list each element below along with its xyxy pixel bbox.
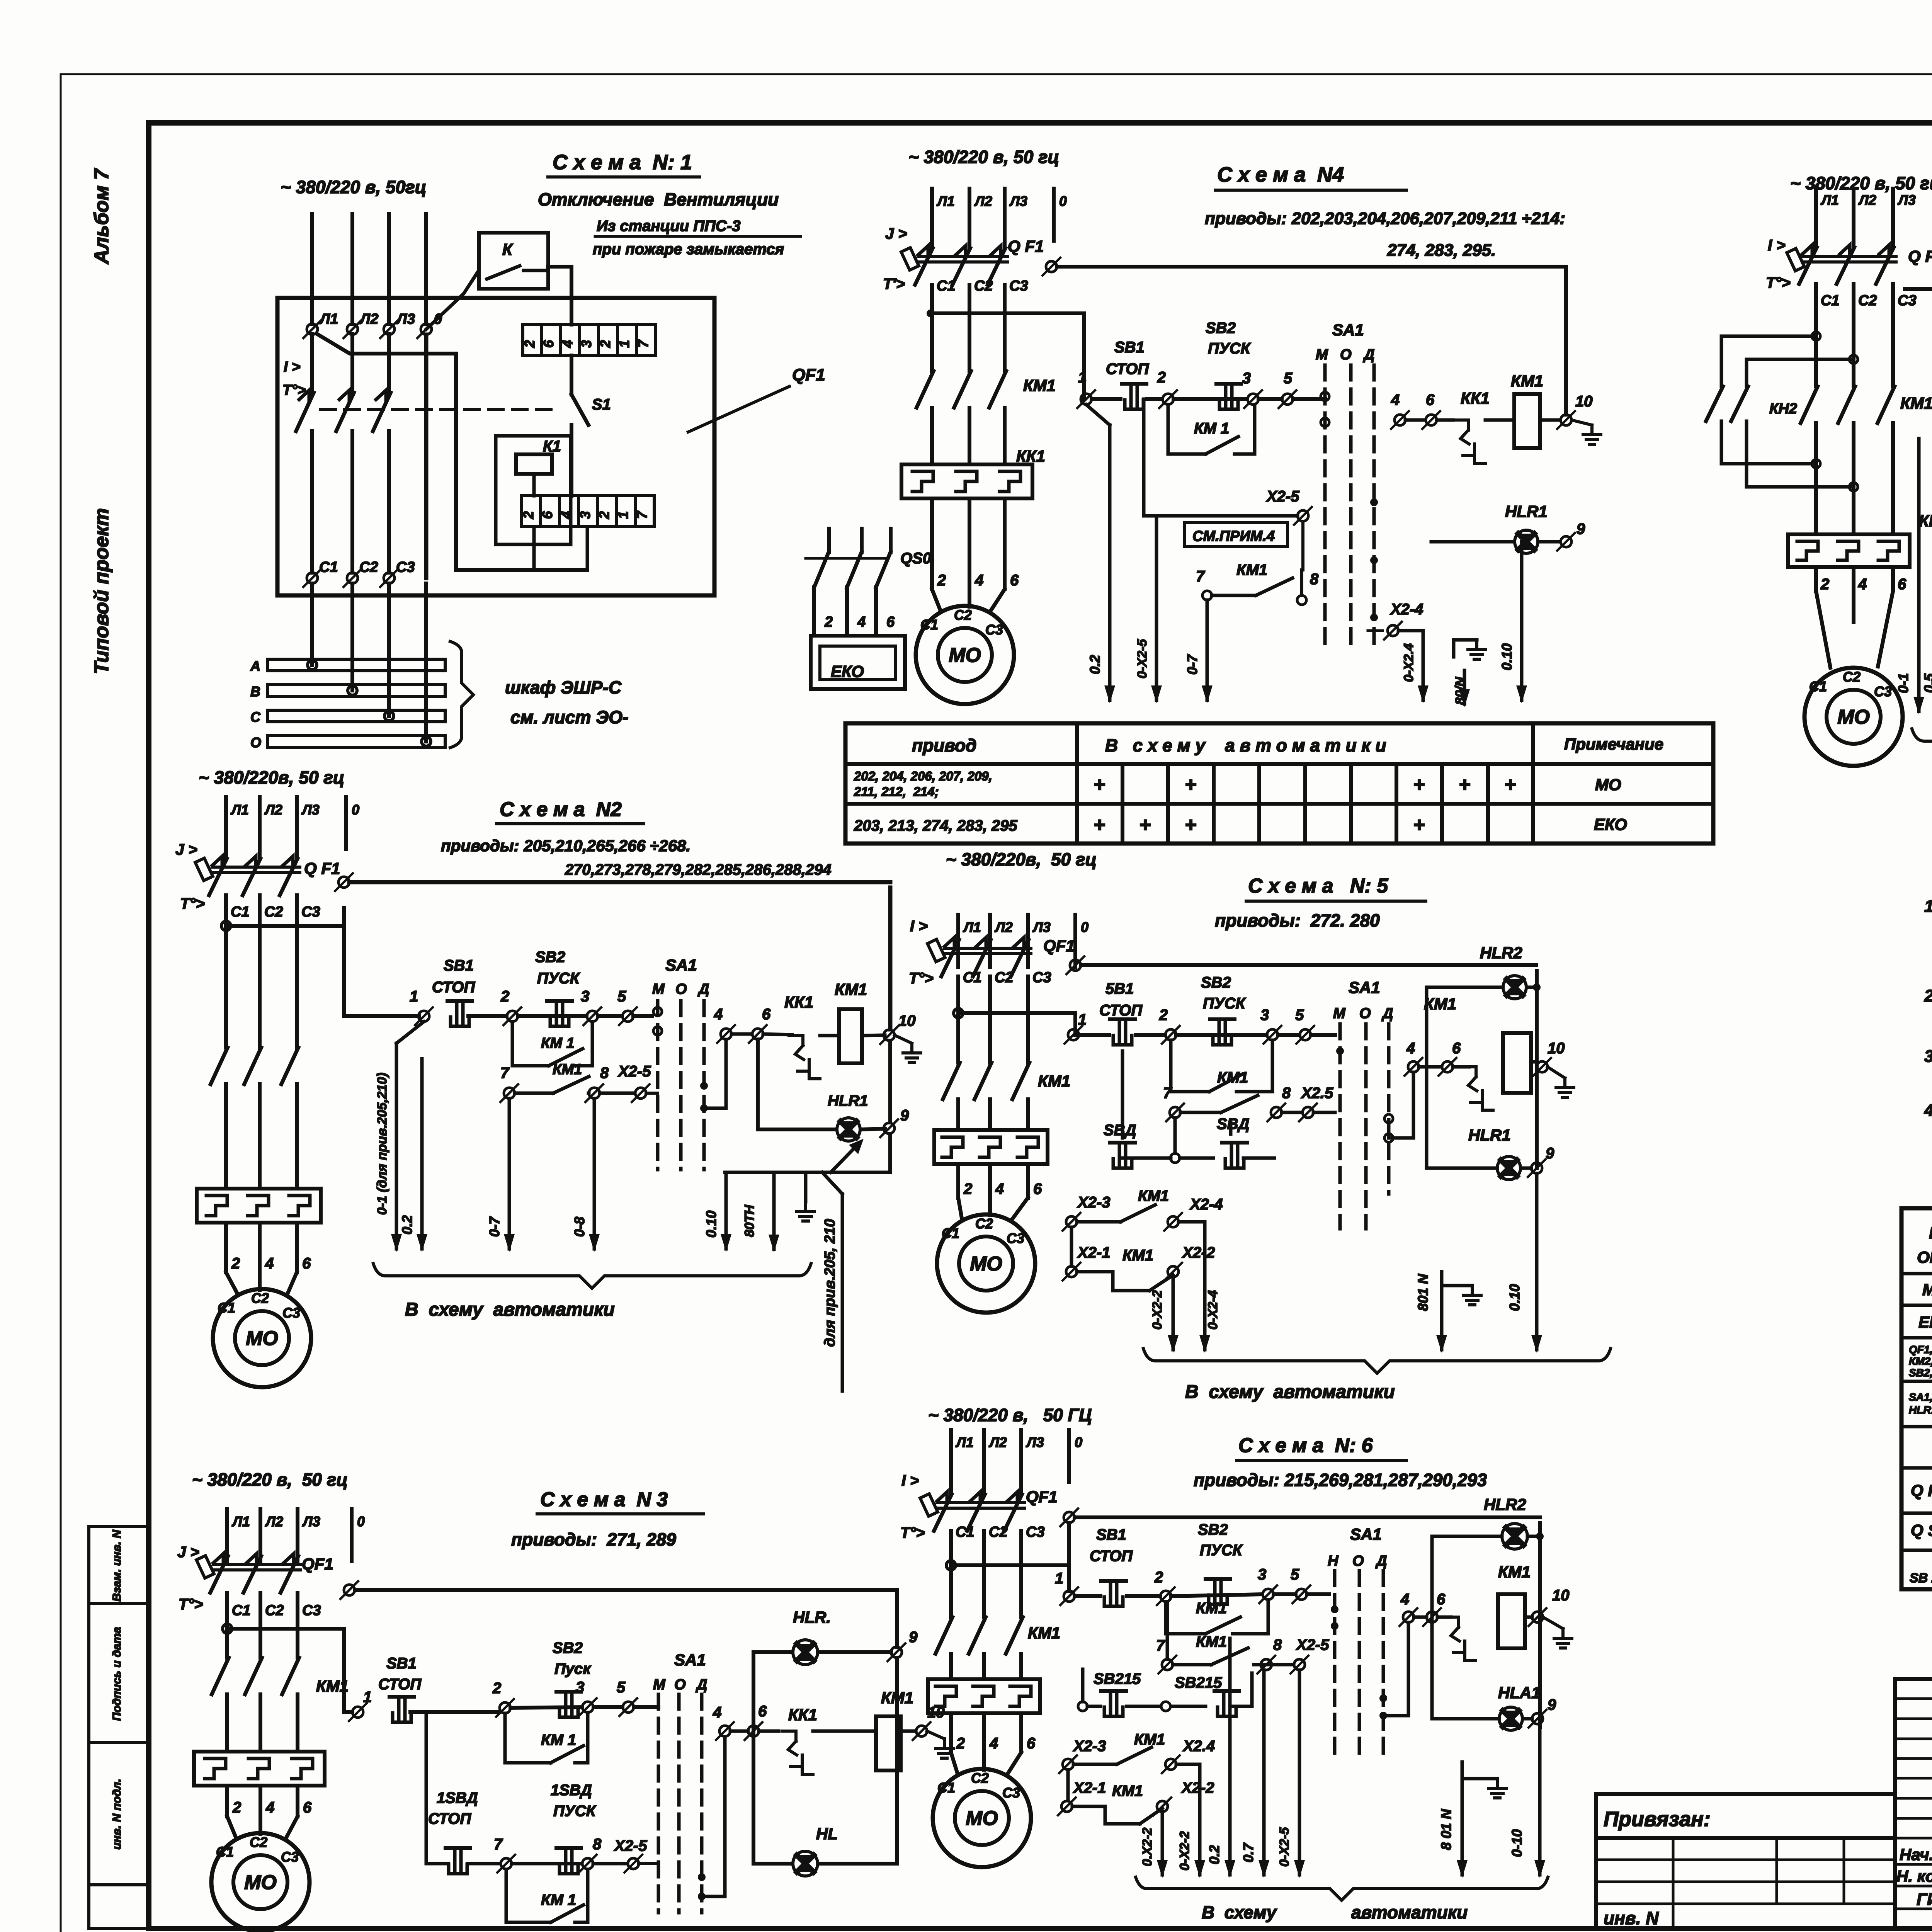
svg-text:Альбом 7: Альбом 7 (90, 168, 113, 265)
svg-text:Х2.4: Х2.4 (1182, 1738, 1215, 1755)
svg-text:МО: МО (949, 644, 981, 667)
svg-text:SВ 215: SВ 215 (1910, 1571, 1932, 1585)
svg-text:С1: С1 (937, 1780, 955, 1796)
svg-text:ЕКО: ЕКО (1918, 1313, 1932, 1331)
svg-text:Х2-3: Х2-3 (1077, 1194, 1111, 1211)
svg-text:ПУСК: ПУСК (537, 970, 580, 987)
svg-text:Х2-5: Х2-5 (1266, 488, 1299, 505)
svg-text:1: 1 (410, 988, 418, 1005)
svg-text:С2: С2 (251, 1290, 269, 1306)
svg-text:НLR1: НLR1 (1468, 1126, 1511, 1144)
svg-text:О: О (250, 735, 261, 750)
svg-text:М: М (1316, 347, 1328, 363)
svg-text:1SВД: 1SВД (551, 1782, 592, 1799)
svg-text:0-7: 0-7 (1184, 654, 1200, 675)
svg-text:0.10: 0.10 (1499, 643, 1515, 670)
svg-text:Q F1: Q F1 (1008, 237, 1044, 256)
svg-text:С3: С3 (301, 904, 320, 920)
svg-text:7: 7 (635, 339, 651, 348)
svg-text:1: 1 (616, 340, 632, 348)
svg-text:2: 2 (596, 511, 612, 519)
svg-text:Q F1: Q F1 (304, 859, 340, 878)
svg-text:МО: МО (1922, 1281, 1932, 1299)
svg-text:Л1: Л1 (963, 919, 981, 935)
svg-text:I >: I > (901, 1472, 919, 1489)
svg-text:9: 9 (909, 1629, 918, 1646)
svg-text:М: М (653, 1677, 666, 1693)
svg-text:ПУСК: ПУСК (1203, 995, 1246, 1012)
svg-text:0-8: 0-8 (571, 1217, 587, 1237)
svg-text:4: 4 (1406, 1040, 1415, 1057)
svg-text:С3: С3 (1009, 278, 1028, 294)
svg-text:S1: S1 (592, 396, 611, 413)
svg-text:1: 1 (1078, 369, 1087, 386)
svg-text:+: + (1185, 774, 1196, 796)
svg-text:Л3: Л3 (396, 311, 415, 327)
svg-text:3: 3 (578, 340, 594, 348)
svg-text:см. лист ЭО-: см. лист ЭО- (510, 707, 628, 727)
svg-text:КМ1: КМ1 (835, 980, 867, 998)
svg-text:Л3: Л3 (1009, 193, 1027, 209)
svg-text:С3: С3 (302, 1602, 321, 1619)
svg-text:6: 6 (886, 614, 895, 630)
svg-text:КН2: КН2 (1769, 401, 1797, 417)
svg-text:5: 5 (1284, 370, 1293, 387)
svg-text:КМ1: КМ1 (1196, 1633, 1227, 1650)
svg-text:80ТН: 80ТН (742, 1204, 757, 1237)
svg-text:М: М (1333, 1005, 1346, 1022)
svg-text:ПУСК: ПУСК (1200, 1542, 1243, 1559)
svg-text:~ 380/220в, 50 гц: ~ 380/220в, 50 гц (199, 767, 344, 787)
svg-text:М: М (652, 981, 665, 997)
svg-text:КМ 1: КМ 1 (541, 1891, 576, 1908)
svg-text:МО: МО (970, 1253, 1002, 1275)
svg-text:SА1: SА1 (665, 956, 697, 974)
svg-text:С1: С1 (963, 969, 982, 986)
svg-text:КМ1: КМ1 (553, 1061, 582, 1078)
svg-text:SА1: SА1 (1350, 1525, 1382, 1543)
svg-text:приводы: 215,269,281,287,290,2: приводы: 215,269,281,287,290,293 (1194, 1470, 1487, 1490)
svg-text:QS0: QS0 (900, 550, 931, 567)
svg-text:Т°>: Т°> (179, 1596, 203, 1613)
svg-text:КК1: КК1 (1461, 389, 1490, 407)
svg-text:КМ1: КМ1 (1134, 1731, 1165, 1748)
svg-text:С2: С2 (995, 969, 1014, 986)
svg-text:1: 1 (615, 511, 631, 519)
svg-text:4.: 4. (1924, 1101, 1932, 1120)
svg-text:приводы: 202,203,204,206,207,2: приводы: 202,203,204,206,207,209,211 ÷21… (1205, 209, 1565, 228)
svg-text:Подпись и дата: Подпись и дата (111, 1627, 123, 1721)
svg-text:4: 4 (265, 1799, 274, 1816)
svg-text:ГИП: ГИП (1917, 1890, 1932, 1909)
svg-text:0.2: 0.2 (1206, 1845, 1222, 1864)
svg-text:Х2-4: Х2-4 (1390, 601, 1423, 618)
svg-text:В с х е м у а в т о м а т: В с х е м у а в т о м а т и к и (1105, 735, 1386, 755)
svg-text:Q S0: Q S0 (1911, 1521, 1932, 1540)
svg-text:ЕКО: ЕКО (1594, 815, 1627, 833)
svg-text:С3: С3 (1007, 1230, 1024, 1246)
svg-text:при пожаре замыкается: при пожаре замыкается (593, 241, 784, 258)
svg-text:6: 6 (1437, 1591, 1446, 1608)
svg-text:Д: Д (1375, 1553, 1387, 1569)
svg-text:Л1: Л1 (1820, 192, 1839, 208)
svg-text:С1: С1 (1809, 679, 1827, 694)
svg-text:SВД: SВД (1217, 1116, 1249, 1133)
svg-text:С3: С3 (396, 559, 415, 575)
svg-text:J >: J > (177, 1544, 199, 1561)
svg-text:7: 7 (494, 1836, 503, 1853)
svg-text:приводы: 272. 280: приводы: 272. 280 (1215, 910, 1380, 930)
svg-text:Х2-2: Х2-2 (1181, 1779, 1214, 1796)
svg-text:SВ2: SВ2 (1206, 320, 1236, 337)
svg-text:9: 9 (1548, 1696, 1556, 1713)
svg-text:SВ215: SВ215 (1094, 1670, 1141, 1687)
svg-text:0: 0 (357, 1514, 365, 1529)
svg-text:привод: привод (912, 735, 976, 755)
svg-text:Л2: Л2 (1858, 192, 1876, 208)
svg-text:Примечание: Примечание (1564, 735, 1663, 753)
svg-text:С: С (250, 709, 261, 725)
svg-text:3: 3 (577, 511, 593, 519)
svg-text:С х е м а N: 5: С х е м а N: 5 (1248, 875, 1388, 897)
svg-text:ПОЗ.: ПОЗ. (1929, 1224, 1932, 1242)
svg-text:Л3: Л3 (1897, 192, 1916, 208)
svg-text:I >: I > (284, 359, 300, 375)
svg-text:Л2: Л2 (974, 193, 992, 209)
svg-text:ЕКО: ЕКО (831, 662, 864, 680)
svg-text:Q F1: Q F1 (1908, 247, 1932, 266)
svg-text:СТОП: СТОП (432, 979, 475, 996)
svg-text:3: 3 (581, 988, 589, 1005)
svg-text:Х2-5: Х2-5 (617, 1063, 651, 1080)
svg-text:2: 2 (522, 340, 537, 348)
svg-text:С1: С1 (319, 559, 338, 575)
svg-text:В схему автоматики: В схему автоматики (1185, 1382, 1395, 1402)
svg-text:SВ215: SВ215 (1175, 1674, 1222, 1691)
svg-text:SВ2: SВ2 (553, 1639, 583, 1656)
svg-text:КМ1: КМ1 (1122, 1247, 1153, 1264)
svg-text:4: 4 (560, 340, 575, 348)
svg-text:~ 380/220 в, 50 ГЦ: ~ 380/220 в, 50 ГЦ (928, 1405, 1092, 1425)
svg-text:4: 4 (995, 1180, 1004, 1197)
svg-text:0-Х2-4: 0-Х2-4 (1206, 1290, 1220, 1330)
svg-text:СТОП: СТОП (428, 1810, 471, 1827)
svg-text:SВД: SВД (1104, 1122, 1136, 1139)
svg-text:МО: МО (246, 1327, 278, 1350)
svg-text:6: 6 (1010, 572, 1019, 589)
svg-text:С х е м а N 3: С х е м а N 3 (540, 1488, 668, 1511)
svg-text:+: + (1504, 774, 1516, 796)
svg-text:КК1: КК1 (1919, 512, 1932, 530)
svg-text:I >: I > (1768, 237, 1786, 254)
svg-text:SВ1: SВ1 (444, 957, 474, 974)
svg-text:Л2: Л2 (994, 919, 1013, 935)
svg-text:QF1, КМ1,: QF1, КМ1, (1909, 1344, 1932, 1355)
svg-text:2: 2 (597, 340, 613, 348)
svg-text:0.10: 0.10 (703, 1211, 719, 1238)
svg-text:Л1: Л1 (319, 311, 338, 327)
svg-text:Q F1: Q F1 (1911, 1481, 1932, 1500)
svg-text:4: 4 (989, 1735, 998, 1752)
svg-text:3: 3 (576, 1679, 584, 1696)
svg-text:+: + (1139, 814, 1151, 836)
svg-text:Т'>: Т'> (883, 276, 905, 293)
svg-text:4: 4 (857, 614, 866, 630)
svg-text:С3: С3 (1026, 1524, 1045, 1540)
svg-text:Х2-4: Х2-4 (1189, 1196, 1223, 1213)
svg-text:0.2: 0.2 (399, 1215, 415, 1235)
svg-text:Л2: Л2 (988, 1434, 1007, 1450)
svg-text:0-1: 0-1 (1895, 673, 1911, 693)
svg-text:Х2-5: Х2-5 (1296, 1636, 1329, 1653)
svg-text:5: 5 (617, 988, 626, 1005)
svg-text:1: 1 (1078, 1011, 1087, 1028)
svg-text:SВ1: SВ1 (1114, 339, 1145, 356)
svg-text:С2: С2 (250, 1834, 267, 1850)
svg-text:Х2-1: Х2-1 (1073, 1779, 1106, 1796)
svg-text:Н: Н (1328, 1553, 1339, 1569)
svg-text:С1: С1 (956, 1524, 975, 1540)
svg-text:J >: J > (885, 225, 907, 242)
svg-text:211, 212, 214;: 211, 212, 214; (854, 784, 939, 799)
svg-text:0: 0 (352, 802, 359, 818)
svg-text:КМ1: КМ1 (1236, 561, 1267, 578)
svg-text:С3: С3 (281, 1849, 299, 1865)
svg-text:5: 5 (1291, 1566, 1299, 1583)
svg-text:КМ1: КМ1 (1196, 1600, 1227, 1617)
svg-text:КК1: КК1 (788, 1706, 817, 1724)
svg-text:Нач.отд.: Нач.отд. (1900, 1845, 1932, 1864)
svg-text:СТОП: СТОП (1106, 361, 1149, 378)
svg-text:10: 10 (1575, 393, 1593, 410)
svg-text:инв. N: инв. N (1604, 1908, 1659, 1928)
svg-text:Из станции ППС-3: Из станции ППС-3 (597, 218, 740, 235)
svg-text:0-1 (для прив.205,210): 0-1 (для прив.205,210) (375, 1073, 389, 1215)
svg-text:КМ1: КМ1 (1498, 1563, 1531, 1581)
svg-text:~ 380/220 в, 50гц: ~ 380/220 в, 50гц (281, 177, 426, 197)
svg-text:НLR.: НLR. (793, 1608, 831, 1626)
svg-text:С3: С3 (1002, 1785, 1020, 1801)
svg-text:КК1: КК1 (1016, 447, 1045, 465)
svg-text:6: 6 (303, 1799, 312, 1816)
svg-text:КМ1: КМ1 (1900, 394, 1932, 412)
svg-text:С2: С2 (971, 1770, 989, 1786)
svg-text:Н. контр.: Н. контр. (1896, 1867, 1932, 1885)
svg-text:0: 0 (1059, 193, 1067, 209)
svg-text:НLR1: НLR1 (1505, 502, 1548, 520)
svg-text:9: 9 (900, 1107, 909, 1124)
svg-text:SА1: SА1 (1349, 978, 1380, 997)
svg-text:С2: С2 (1858, 293, 1877, 309)
svg-text:6: 6 (541, 340, 556, 348)
svg-text:приводы: 205,210,265,266 ÷268.: приводы: 205,210,265,266 ÷268. (441, 837, 690, 855)
svg-text:9: 9 (1546, 1145, 1554, 1162)
svg-text:2: 2 (963, 1180, 972, 1197)
svg-text:С1: С1 (218, 1300, 235, 1316)
svg-text:SВ2: SВ2 (1201, 974, 1231, 991)
svg-text:0-Х2-5: 0-Х2-5 (1277, 1827, 1292, 1867)
svg-text:КМ 1: КМ 1 (541, 1731, 576, 1748)
svg-text:С1: С1 (937, 278, 956, 294)
svg-text:КМ1: КМ1 (1028, 1624, 1060, 1642)
svg-text:8: 8 (593, 1836, 602, 1853)
svg-text:Т°>: Т°> (900, 1524, 925, 1541)
svg-text:6: 6 (762, 1006, 771, 1023)
svg-text:МО: МО (244, 1871, 277, 1894)
svg-text:270,273,278,279,282,285,286,28: 270,273,278,279,282,285,286,288,294 (565, 861, 832, 878)
svg-text:0.2: 0.2 (1087, 655, 1103, 674)
svg-text:КМ1: КМ1 (1138, 1187, 1169, 1204)
svg-text:SА1: SА1 (674, 1651, 706, 1669)
svg-text:В схему: В схему (1202, 1902, 1277, 1922)
svg-text:0.7: 0.7 (1240, 1842, 1256, 1862)
svg-text:Д: Д (697, 981, 709, 997)
svg-text:4: 4 (1400, 1591, 1409, 1608)
svg-text:+: + (1094, 814, 1105, 836)
svg-text:Л3: Л3 (1026, 1434, 1044, 1450)
svg-text:Л2: Л2 (359, 311, 378, 327)
svg-text:0-Х2.4: 0-Х2.4 (1401, 643, 1416, 682)
svg-text:КМ1: КМ1 (1038, 1072, 1070, 1090)
svg-text:2.: 2. (1924, 986, 1932, 1005)
svg-text:6: 6 (1027, 1735, 1036, 1752)
svg-text:НLR1: НLR1 (828, 1092, 868, 1109)
svg-text:ПУСК: ПУСК (1208, 340, 1251, 357)
svg-text:Х2-5: Х2-5 (614, 1837, 647, 1854)
svg-text:SВ2: SВ2 (535, 949, 565, 966)
svg-text:QF1: QF1 (302, 1555, 333, 1573)
svg-text:Пуск: Пуск (554, 1660, 591, 1677)
svg-text:А: А (250, 658, 260, 674)
svg-text:SВ2: SВ2 (1198, 1521, 1228, 1538)
svg-text:С3: С3 (1898, 293, 1917, 309)
svg-text:203, 213, 274, 283, 295: 203, 213, 274, 283, 295 (854, 817, 1017, 834)
svg-text:SА1: SА1 (1332, 321, 1364, 339)
svg-text:Л1: Л1 (955, 1434, 974, 1450)
svg-text:С1: С1 (920, 617, 938, 633)
svg-text:2: 2 (824, 614, 833, 630)
svg-text:Х2-3: Х2-3 (1073, 1738, 1106, 1755)
svg-text:6: 6 (1898, 576, 1906, 593)
svg-text:С3: С3 (1032, 969, 1051, 986)
svg-text:Х2-2: Х2-2 (1182, 1244, 1215, 1261)
svg-text:~ 380/220в, 50 гц: ~ 380/220в, 50 гц (946, 849, 1097, 869)
svg-text:С1: С1 (1821, 293, 1840, 309)
svg-text:Л1: Л1 (936, 193, 955, 209)
svg-text:8: 8 (1282, 1085, 1291, 1102)
svg-text:О: О (675, 981, 687, 997)
svg-text:6: 6 (302, 1255, 311, 1272)
svg-text:Х2-1: Х2-1 (1077, 1244, 1111, 1261)
svg-text:НLА1: НLА1 (1498, 1684, 1541, 1702)
svg-text:КК1: КК1 (784, 993, 813, 1011)
svg-text:8: 8 (1310, 571, 1319, 588)
svg-text:В: В (250, 684, 260, 699)
svg-text:0-Х2-5: 0-Х2-5 (1135, 639, 1150, 679)
svg-text:2: 2 (500, 988, 509, 1005)
svg-text:1: 1 (363, 1689, 372, 1706)
svg-text:3: 3 (1258, 1566, 1266, 1583)
svg-text:2: 2 (520, 511, 536, 519)
svg-text:СМ.ПРИМ.4: СМ.ПРИМ.4 (1192, 528, 1275, 544)
svg-text:КМ1: КМ1 (1217, 1069, 1248, 1086)
svg-text:Л3: Л3 (301, 802, 320, 818)
svg-text:I >: I > (910, 918, 928, 935)
svg-text:2: 2 (1157, 369, 1166, 386)
svg-text:+: + (1413, 774, 1425, 796)
svg-text:КМ2,SВ1.: КМ2,SВ1. (1909, 1355, 1932, 1367)
svg-text:К: К (502, 240, 514, 259)
svg-text:~ 380/220 в, 50 гц: ~ 380/220 в, 50 гц (908, 147, 1059, 167)
svg-text:Привязан:: Привязан: (1604, 1808, 1711, 1831)
svg-text:4: 4 (975, 572, 983, 589)
svg-text:0-Х2-2: 0-Х2-2 (1177, 1831, 1192, 1871)
svg-text:НLR1, R2: НLR1, R2 (1909, 1404, 1932, 1416)
svg-text:С1: С1 (232, 1602, 251, 1619)
svg-text:10: 10 (1552, 1587, 1570, 1604)
svg-text:автоматики: автоматики (1351, 1902, 1468, 1922)
svg-text:0-10: 0-10 (1509, 1829, 1525, 1857)
svg-text:СТОП: СТОП (378, 1676, 422, 1693)
svg-text:4: 4 (714, 1006, 723, 1023)
svg-text:5: 5 (617, 1679, 626, 1696)
svg-text:Л1: Л1 (231, 1514, 250, 1529)
svg-text:Л2: Л2 (264, 802, 282, 818)
svg-text:СТОП: СТОП (1099, 1002, 1143, 1019)
svg-text:4: 4 (1858, 576, 1867, 593)
svg-text:Т°>: Т°> (1766, 274, 1791, 291)
svg-text:SВ1: SВ1 (386, 1655, 417, 1672)
svg-text:Д: Д (1381, 1005, 1393, 1022)
svg-text:Х2.5: Х2.5 (1301, 1085, 1333, 1102)
svg-text:ОБОЗН.: ОБОЗН. (1917, 1248, 1932, 1266)
svg-text:О: О (1359, 1005, 1371, 1022)
svg-text:2: 2 (1820, 576, 1829, 593)
svg-text:Т°>: Т°> (180, 895, 205, 912)
svg-text:~ 380/220 в, 50 гц: ~ 380/220 в, 50 гц (1790, 173, 1932, 193)
svg-text:3: 3 (1242, 370, 1251, 387)
svg-text:+: + (1094, 774, 1105, 796)
svg-text:6: 6 (758, 1703, 767, 1720)
svg-text:Л3: Л3 (302, 1514, 320, 1529)
svg-text:7: 7 (1163, 1085, 1172, 1102)
svg-text:2: 2 (231, 1255, 240, 1272)
svg-text:SВ2,SВ3.: SВ2,SВ3. (1909, 1367, 1932, 1379)
svg-text:202, 204, 206, 207, 209,: 202, 204, 206, 207, 209, (854, 769, 992, 783)
svg-text:МО: МО (966, 1807, 998, 1830)
svg-text:шкаф ЭШР-С: шкаф ЭШР-С (505, 677, 622, 697)
svg-text:0.10: 0.10 (1507, 1284, 1522, 1311)
svg-text:С2: С2 (974, 278, 993, 294)
svg-text:5: 5 (1295, 1007, 1304, 1024)
svg-text:SА1, КК1: SА1, КК1 (1909, 1391, 1932, 1403)
svg-text:К1: К1 (543, 438, 561, 455)
svg-text:СТОП: СТОП (1090, 1548, 1133, 1565)
svg-text:0-Х2-2: 0-Х2-2 (1150, 1290, 1165, 1330)
svg-text:8 01 N: 8 01 N (1438, 1809, 1454, 1850)
svg-text:С2: С2 (1843, 669, 1861, 685)
svg-text:КМ1: КМ1 (1023, 376, 1056, 395)
svg-text:8: 8 (1273, 1636, 1282, 1653)
svg-text:КМ1: КМ1 (1424, 995, 1456, 1013)
svg-text:QF1: QF1 (1043, 937, 1075, 955)
svg-text:КМ 1: КМ 1 (1194, 420, 1229, 437)
svg-text:+: + (1459, 774, 1470, 796)
svg-text:Взам. инв. N: Взам. инв. N (111, 1529, 123, 1602)
svg-text:Д: Д (1363, 347, 1374, 363)
svg-text:6: 6 (1426, 391, 1435, 408)
svg-text:Отключение Вентиляции: Отключение Вентиляции (538, 189, 779, 209)
